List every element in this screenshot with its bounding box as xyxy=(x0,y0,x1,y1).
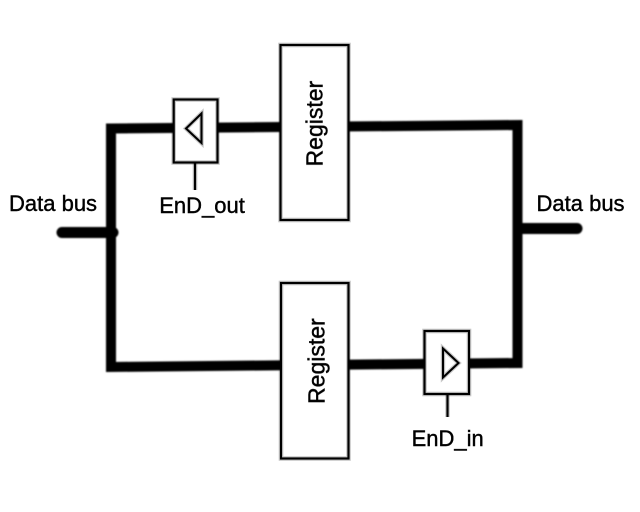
wire: right data bus stub xyxy=(518,223,577,234)
wire: EnD_in enable stem xyxy=(445,394,450,417)
tri-state buffer EnD_out box xyxy=(174,100,218,163)
svg-text:EnD_in: EnD_in xyxy=(412,426,484,451)
wire: EnD_out enable stem xyxy=(193,163,198,191)
wire: left data bus stub xyxy=(62,227,113,238)
tri-state buffer EnD_in triangle (points right) xyxy=(443,349,459,378)
register R2 (bottom, input register) box xyxy=(281,283,349,459)
wire: data bus loop (top, right, bottom, left sides) xyxy=(111,125,518,367)
svg-text:Register: Register xyxy=(302,80,328,166)
svg-text:EnD_out: EnD_out xyxy=(159,193,245,218)
svg-text:Data bus: Data bus xyxy=(537,191,625,216)
svg-text:Data bus: Data bus xyxy=(9,191,97,216)
tri-state buffer EnD_out triangle (points left) xyxy=(186,114,202,144)
svg-text:Register: Register xyxy=(304,318,330,404)
tri-state buffer EnD_in box xyxy=(425,331,470,394)
register R1 (top, output register) box xyxy=(281,45,349,220)
